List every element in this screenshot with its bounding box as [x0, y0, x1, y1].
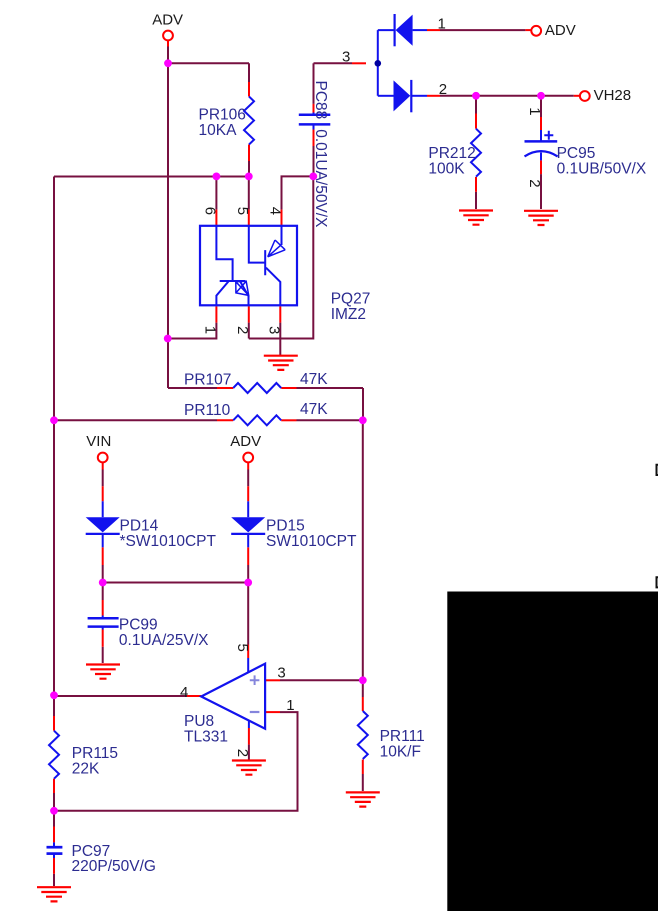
- svg-text:220P/50V/G: 220P/50V/G: [72, 858, 156, 875]
- svg-text:1: 1: [526, 107, 543, 115]
- svg-text:VH28: VH28: [594, 87, 632, 104]
- svg-text:2: 2: [234, 749, 251, 757]
- svg-text:10KA: 10KA: [199, 122, 238, 139]
- svg-text:0.1UB/50V/X: 0.1UB/50V/X: [557, 161, 647, 178]
- svg-text:ADV: ADV: [152, 12, 183, 29]
- svg-text:3: 3: [277, 665, 285, 682]
- svg-text:0.1UA/25V/X: 0.1UA/25V/X: [119, 632, 209, 649]
- svg-text:PR107: PR107: [184, 372, 231, 389]
- svg-text:4: 4: [267, 207, 284, 215]
- svg-text:4: 4: [180, 684, 188, 701]
- svg-text:6: 6: [201, 207, 218, 215]
- svg-text:SW1010CPT: SW1010CPT: [266, 533, 357, 550]
- svg-text:*SW1010CPT: *SW1010CPT: [120, 533, 217, 550]
- svg-text:5: 5: [234, 644, 251, 652]
- svg-text:ADV: ADV: [545, 22, 576, 39]
- svg-text:47K: 47K: [300, 371, 328, 388]
- svg-text:1: 1: [286, 697, 294, 714]
- svg-text:22K: 22K: [72, 760, 100, 777]
- svg-text:2: 2: [439, 81, 447, 98]
- svg-text:5: 5: [234, 207, 251, 215]
- svg-text:PR110: PR110: [184, 402, 231, 419]
- svg-text:TL331: TL331: [184, 728, 228, 745]
- svg-text:47K: 47K: [300, 401, 328, 418]
- svg-text:100K: 100K: [428, 160, 465, 177]
- svg-text:2: 2: [526, 179, 543, 187]
- svg-text:10K/F: 10K/F: [380, 743, 421, 760]
- svg-text:3: 3: [342, 49, 350, 66]
- svg-text:IMZ2: IMZ2: [331, 306, 366, 323]
- svg-text:1: 1: [201, 326, 218, 334]
- svg-text:PC88: PC88: [312, 81, 329, 120]
- svg-text:2: 2: [234, 326, 251, 334]
- svg-text:VIN: VIN: [86, 433, 111, 450]
- svg-text:ADV: ADV: [230, 433, 261, 450]
- svg-text:1: 1: [438, 15, 446, 32]
- svg-text:0.01UA/50V/X: 0.01UA/50V/X: [312, 129, 329, 228]
- svg-text:3: 3: [265, 326, 282, 334]
